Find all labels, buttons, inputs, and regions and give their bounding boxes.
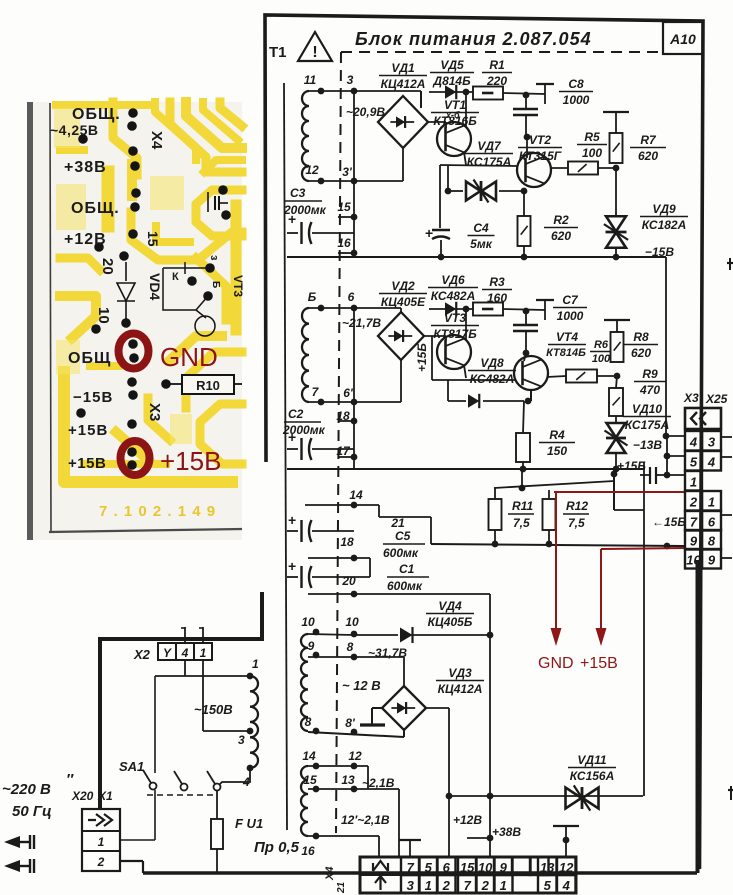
svg-text:Х4: Х4 <box>148 131 165 150</box>
svg-text:5: 5 <box>544 878 552 893</box>
thick bottom wire <box>120 860 143 862</box>
inset red circle GND <box>119 334 149 369</box>
wire bus to row9 <box>667 545 685 547</box>
wire to R9 <box>616 376 617 388</box>
svg-text:−15В: −15В <box>73 389 113 406</box>
X3 row 10|9 <box>685 549 702 569</box>
inset frame lines <box>50 103 51 533</box>
wire R9 to VD10 <box>615 416 617 424</box>
svg-text:~20,9В: ~20,9В <box>346 105 385 119</box>
svg-text:6: 6 <box>348 290 355 304</box>
resistor R4 <box>516 433 530 462</box>
wire riser x490 <box>489 635 491 857</box>
svg-text:1: 1 <box>690 475 697 490</box>
X4 bottom cell 5 <box>538 875 557 893</box>
svg-text:9: 9 <box>690 534 698 549</box>
bus -15V channel1 <box>287 256 666 258</box>
svg-text:VД8: VД8 <box>480 356 504 370</box>
svg-text:VТ3: VТ3 <box>444 311 466 325</box>
X4 arrow cell <box>400 857 402 893</box>
node pin4 <box>247 765 254 772</box>
svg-text:6: 6 <box>708 515 716 530</box>
svg-text:С4: С4 <box>473 221 489 235</box>
svg-text:10: 10 <box>301 615 315 629</box>
node 6 left <box>318 305 325 312</box>
wire -15V into row4 <box>663 433 670 440</box>
pin riser 18-17 <box>353 308 355 469</box>
inset capacitor sketch <box>207 192 209 212</box>
svg-text:VД6: VД6 <box>441 273 465 287</box>
wire VT1 emitter down <box>464 152 466 165</box>
svg-text:6': 6' <box>343 386 354 400</box>
svg-text:+: + <box>425 225 433 241</box>
svg-text:16: 16 <box>301 844 315 858</box>
edge mark 2 <box>728 789 733 791</box>
zener VD10 <box>607 423 626 438</box>
X4 bottom cell 2 <box>437 875 456 893</box>
thick feed wire from X2 area <box>260 592 264 639</box>
bridge rectifier VD2 <box>378 312 424 360</box>
wire VT3 emitter down <box>464 365 466 378</box>
primary winding <box>250 676 258 768</box>
node 6 right <box>351 305 358 312</box>
wire to VD9 <box>615 168 617 217</box>
red GND trace <box>554 491 684 493</box>
svg-text:С5: С5 <box>395 529 411 543</box>
node 9 <box>313 652 320 659</box>
wire VT2 base <box>526 137 528 158</box>
X3 row 9|8 <box>685 530 702 550</box>
svg-text:R4: R4 <box>549 428 565 442</box>
svg-text:50 Гц: 50 Гц <box>12 803 52 820</box>
node 10 left <box>313 629 320 636</box>
svg-text:КЦ405Е: КЦ405Е <box>381 295 426 309</box>
svg-text:~2,1В: ~2,1В <box>362 776 395 790</box>
svg-text:+: + <box>288 512 296 528</box>
X4 bottom cell 4 <box>557 875 576 893</box>
wire pin20 to VD4 junction <box>308 593 490 595</box>
svg-text:GND: GND <box>538 655 574 672</box>
wire to primary pin1 <box>155 675 250 677</box>
X4 top cell 13 <box>538 857 557 875</box>
svg-text:2: 2 <box>442 878 451 893</box>
node 11 <box>318 88 325 95</box>
wire row5 <box>664 453 671 460</box>
node R7 bottom <box>613 165 620 172</box>
wire W1 bottom <box>309 180 354 182</box>
svg-text:18: 18 <box>340 535 354 549</box>
X4 bottom cell 2 <box>476 875 495 893</box>
svg-text:+15Б: +15Б <box>415 343 429 372</box>
svg-text:+15B: +15B <box>580 655 618 672</box>
wire pin18b <box>308 557 370 559</box>
svg-text:12: 12 <box>348 749 362 763</box>
svg-text:5: 5 <box>690 455 698 470</box>
wire VT4 base <box>524 353 526 361</box>
wire R6 to R8 <box>597 375 617 377</box>
svg-text:+15В: +15В <box>68 455 106 472</box>
connector X4 outer <box>360 857 576 893</box>
svg-text:VТ2: VТ2 <box>529 133 551 147</box>
svg-text:VД9: VД9 <box>652 202 676 216</box>
svg-text:С2: С2 <box>288 407 304 421</box>
resistor R3 <box>473 303 503 316</box>
svg-text:1000: 1000 <box>557 309 584 323</box>
wire W4 pin13 <box>308 788 399 790</box>
pin stubs on screen line <box>338 216 354 218</box>
node 16 <box>313 833 320 840</box>
svg-text:1: 1 <box>425 878 432 893</box>
svg-text:20: 20 <box>341 574 356 588</box>
node 8 left <box>313 728 320 735</box>
inset pads <box>128 108 138 118</box>
svg-text:8: 8 <box>305 715 312 729</box>
svg-text:КТ814Б: КТ814Б <box>546 347 586 359</box>
svg-text:R1: R1 <box>489 58 505 72</box>
diode VD4 <box>354 634 398 636</box>
wire -15V to X3 row4 <box>665 257 667 436</box>
X4 bottom cell 1 <box>494 875 513 893</box>
wire bridge3 bottom <box>403 728 405 737</box>
svg-text:Б: Б <box>210 281 221 288</box>
X4 top cell 15 <box>458 857 477 875</box>
wire R3 to node <box>503 309 545 310</box>
X3 stubs right <box>721 436 732 438</box>
capacitor C1 <box>287 576 298 578</box>
svg-text:VД2: VД2 <box>391 279 415 293</box>
svg-text:11: 11 <box>304 73 317 87</box>
svg-text:←15Б: ←15Б <box>652 515 686 529</box>
node pin1 <box>247 673 254 680</box>
T1 left boundary line <box>284 83 287 830</box>
svg-text:9: 9 <box>708 553 716 568</box>
wire bridge3 left ground <box>372 707 383 709</box>
svg-text:R8: R8 <box>633 330 649 344</box>
svg-text:А10: А10 <box>669 31 696 47</box>
bus bottom middle <box>431 544 685 546</box>
X4 bottom cell 1 <box>419 875 438 893</box>
svg-text:8': 8' <box>345 716 356 730</box>
svg-text:2000мк: 2000мк <box>283 203 327 217</box>
svg-text:+15В: +15В <box>68 422 108 439</box>
svg-text:4: 4 <box>707 455 716 470</box>
pcb yellow traces <box>56 102 242 482</box>
transistor VT2 <box>517 153 551 187</box>
node VT2 base <box>524 134 531 141</box>
X4 top cell 6 <box>437 857 456 875</box>
X4 row divider <box>360 874 576 876</box>
wire VT2 emitter to R5 <box>550 167 568 169</box>
wire VT3 to VT4 <box>432 379 515 381</box>
svg-text:8: 8 <box>347 640 354 654</box>
svg-text:~4,25В: ~4,25В <box>50 122 99 138</box>
resistor R8 <box>611 332 624 362</box>
svg-text:Х20: Х20 <box>71 789 94 803</box>
wire pin4 to switch <box>219 768 250 785</box>
svg-text:7,5: 7,5 <box>513 516 530 530</box>
svg-text:1: 1 <box>252 657 259 671</box>
terminal T +38V <box>553 825 579 827</box>
svg-text:КЦ412А: КЦ412А <box>438 682 483 696</box>
wire switch right to fuse <box>216 790 218 819</box>
svg-text:160: 160 <box>487 291 507 305</box>
node 3 <box>351 88 358 95</box>
zener VD9 <box>606 216 626 231</box>
svg-text:1000: 1000 <box>563 93 590 107</box>
svg-text:620: 620 <box>551 229 571 243</box>
capacitor near row1 <box>649 467 651 484</box>
diode VD6 on rail2 <box>354 308 473 309</box>
wire bridge top <box>420 91 422 108</box>
svg-text:~ 12 В: ~ 12 В <box>342 678 381 693</box>
capacitor C7 plates <box>525 311 527 324</box>
svg-text:14: 14 <box>302 749 316 763</box>
wire +15B riser <box>431 336 433 380</box>
terminal T mid <box>399 839 421 841</box>
wire W2 bottom <box>309 401 354 403</box>
node 8' <box>351 729 358 736</box>
svg-text:R2: R2 <box>553 213 569 227</box>
svg-text:5мк: 5мк <box>470 237 493 251</box>
svg-text:ОБЩ: ОБЩ <box>68 350 111 367</box>
diode VD11 KC156A <box>449 795 643 797</box>
svg-text:+: + <box>288 558 296 574</box>
wire pin14 <box>305 504 379 506</box>
svg-text:7: 7 <box>464 878 472 893</box>
resistor R2 <box>518 216 531 246</box>
svg-text:100: 100 <box>582 146 602 160</box>
svg-text:600мк: 600мк <box>383 546 419 560</box>
svg-text:1: 1 <box>500 878 507 893</box>
wire bridge3 out +12V <box>426 707 449 709</box>
svg-text:Х2: Х2 <box>133 647 151 662</box>
warning triangle <box>298 32 332 61</box>
wire W3 pin8' <box>308 732 404 737</box>
svg-text:1: 1 <box>98 835 105 849</box>
wire bridge bottom to 3' <box>402 148 404 181</box>
wire switch left up <box>154 676 156 773</box>
svg-text:КС182А: КС182А <box>642 218 687 232</box>
svg-text:100: 100 <box>592 353 611 365</box>
node 15 left <box>313 786 320 793</box>
switch link dashed <box>147 794 215 796</box>
wire VT3 collector to rail2 <box>465 309 467 339</box>
node 14 <box>313 763 320 770</box>
svg-text:R7: R7 <box>640 133 657 147</box>
svg-text:14: 14 <box>349 488 363 502</box>
diode VD8 <box>447 380 449 401</box>
svg-text:~220 В: ~220 В <box>2 781 51 798</box>
svg-text:~21,7В: ~21,7В <box>342 316 381 330</box>
svg-text:К: К <box>172 271 179 283</box>
winding W1 <box>302 91 309 181</box>
wire W4 pin12 <box>308 765 368 767</box>
capacitor C2 <box>287 448 298 450</box>
svg-text:VД5: VД5 <box>440 58 464 72</box>
resistor R6 horizontal <box>566 370 597 383</box>
resistor R9 <box>609 388 623 416</box>
wire VD10 to bus2 <box>615 452 617 469</box>
svg-text:VТ3: VТ3 <box>231 275 245 297</box>
X3 row 4|3 <box>685 431 702 451</box>
svg-text:2: 2 <box>689 495 698 510</box>
node 13 <box>351 786 358 793</box>
svg-text:10: 10 <box>345 615 359 629</box>
svg-text:+15B: +15B <box>160 446 221 476</box>
X4 top cell blank <box>512 857 531 875</box>
svg-text:КС175А: КС175А <box>467 155 512 169</box>
svg-text:КС156А: КС156А <box>570 769 615 783</box>
svg-text:Б: Б <box>308 290 317 304</box>
svg-text:Блок питания 2.087.054: Блок питания 2.087.054 <box>355 29 592 49</box>
svg-text:R11: R11 <box>512 499 533 513</box>
node 18 <box>351 418 358 425</box>
svg-text:16: 16 <box>337 236 351 250</box>
wire W3 pin10 <box>308 634 354 635</box>
svg-text:R3: R3 <box>489 275 505 289</box>
svg-text:Х3: Х3 <box>683 391 699 405</box>
svg-text:GND: GND <box>160 342 218 372</box>
svg-text:2000мк: 2000мк <box>282 423 326 437</box>
wire VT1 collector to rail <box>465 92 467 126</box>
svg-text:1: 1 <box>200 646 207 660</box>
svg-text:600мк: 600мк <box>387 579 423 593</box>
svg-text:21: 21 <box>336 881 347 894</box>
svg-text:4: 4 <box>562 878 571 893</box>
stub near +38V <box>467 837 490 839</box>
fuse FU1 <box>211 819 223 849</box>
svg-text:КТ315Г: КТ315Г <box>519 149 562 163</box>
wire bridge3 top <box>403 657 405 686</box>
svg-text:VД7: VД7 <box>477 139 502 153</box>
svg-text:−13В: −13В <box>633 438 662 452</box>
svg-text:Пр 0,5: Пр 0,5 <box>254 839 300 856</box>
wire X2-4 down <box>184 660 186 676</box>
svg-text:7 . 1 0 2 . 1 4 9: 7 . 1 0 2 . 1 4 9 <box>99 503 216 520</box>
X3 row 2|1 <box>685 491 702 511</box>
mains plug arrows <box>4 836 20 848</box>
X4 bottom cell 7 <box>458 875 477 893</box>
svg-text:R5: R5 <box>584 130 600 144</box>
X3 row 1| <box>685 471 702 491</box>
svg-text:КС482А: КС482А <box>470 372 515 386</box>
svg-text:12: 12 <box>305 163 319 177</box>
X4 top cell 9 <box>494 857 513 875</box>
svg-text:VД10: VД10 <box>632 402 662 416</box>
svg-text:620: 620 <box>638 149 658 163</box>
wire bridge2 bottom <box>400 360 402 402</box>
svg-text:2: 2 <box>97 855 105 869</box>
inset diode VD4 <box>125 262 127 281</box>
svg-text:18: 18 <box>336 409 350 423</box>
svg-text:VД11: VД11 <box>577 753 606 767</box>
X4 bottom cell 3 <box>401 875 420 893</box>
inset red circle +15B <box>121 441 150 475</box>
winding W4 <box>301 766 308 836</box>
node VT4 base <box>523 350 530 357</box>
svg-text:ОБЩ.: ОБЩ. <box>71 200 120 217</box>
node pin3 <box>247 728 254 735</box>
capacitor C3 <box>287 232 298 234</box>
diode VD5 on rail <box>354 91 473 92</box>
sheet frame <box>265 15 703 869</box>
svg-text:150: 150 <box>547 444 567 458</box>
svg-text:3: 3 <box>347 73 354 87</box>
X4 top cell 7 <box>401 857 420 875</box>
svg-text:15: 15 <box>303 773 317 787</box>
wire bridge2 out <box>424 335 446 337</box>
wire VD8 to R4 <box>523 401 524 433</box>
svg-text:9: 9 <box>308 639 315 653</box>
svg-text:VД3: VД3 <box>448 666 472 680</box>
X4 top cell blank <box>530 857 549 875</box>
X2 entry ticks <box>184 627 186 643</box>
terminal T bar R8 <box>604 319 630 321</box>
pin riser 3'-15-16 <box>353 91 355 257</box>
svg-text:2: 2 <box>481 878 490 893</box>
svg-text:3: 3 <box>708 435 716 450</box>
svg-text:+15Б: +15Б <box>617 459 646 473</box>
svg-text:VД4: VД4 <box>438 599 462 613</box>
capacitor C4 <box>432 229 450 231</box>
svg-text:+38В: +38В <box>492 825 521 839</box>
svg-text:3': 3' <box>342 165 353 179</box>
wire VD7 to R2 <box>523 191 525 216</box>
node 12 <box>351 763 358 770</box>
node 7 <box>318 399 325 406</box>
transistor VT1 <box>437 122 471 156</box>
svg-text:VТ1: VТ1 <box>444 98 466 112</box>
wire X2-1 down <box>202 660 204 731</box>
svg-text:″: ″ <box>66 771 74 788</box>
svg-text:8: 8 <box>708 534 716 549</box>
svg-text:С3: С3 <box>290 186 306 200</box>
wire bridge2 top <box>400 308 402 312</box>
dashed core line vertical <box>336 52 341 833</box>
svg-text:VД1: VД1 <box>391 61 415 75</box>
bus channel2 <box>287 468 645 470</box>
svg-text:20: 20 <box>99 258 116 275</box>
node 15 <box>351 214 358 221</box>
inset transistor sketch <box>163 268 196 310</box>
wire to C4 <box>439 165 441 228</box>
node C8 top <box>523 92 530 99</box>
svg-text:!: ! <box>312 44 317 61</box>
node C7 top <box>523 308 530 315</box>
node 16 <box>351 250 358 257</box>
svg-text:Х25: Х25 <box>705 392 728 406</box>
wire R1 to node <box>503 93 545 94</box>
svg-text:Y: Y <box>163 646 172 660</box>
wire switch left down to X20-1 <box>154 790 156 840</box>
winding W3 <box>301 634 308 731</box>
terminal T bar R7 <box>603 111 629 113</box>
GND rail to R11 R12 <box>494 481 614 488</box>
svg-text:КТ816Б: КТ816Б <box>433 114 477 128</box>
wire to primary pin3 <box>203 730 250 732</box>
wire VT4 bottom <box>530 390 532 401</box>
transistor VT3 <box>437 335 471 369</box>
wire R5 to R7 <box>598 167 616 169</box>
svg-text:КС482А: КС482А <box>431 289 476 303</box>
svg-text:+12В: +12В <box>453 813 482 827</box>
svg-text:VТ4: VТ4 <box>556 330 578 344</box>
svg-text:17: 17 <box>336 444 351 458</box>
svg-text:7,5: 7,5 <box>568 516 585 530</box>
svg-text:~31,7В: ~31,7В <box>368 646 407 660</box>
node 8 right <box>351 654 358 661</box>
resistor R11 <box>494 488 496 499</box>
